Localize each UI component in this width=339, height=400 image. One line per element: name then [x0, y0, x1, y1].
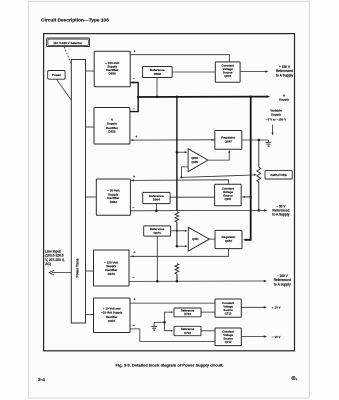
svg-text:Reference: Reference — [181, 309, 195, 313]
svg-text:Q637: Q637 — [224, 74, 231, 78]
wire Q657 bottom to rect4 plus line — [130, 249, 228, 257]
svg-text:−7 V to −150 V: −7 V to −150 V — [266, 118, 286, 122]
dashed mechanical link from selector to transformer — [64, 47, 72, 66]
constant voltage source Q667 — [215, 184, 242, 206]
svg-text:3-4: 3-4 — [38, 377, 45, 383]
wire op-amp Q654 output — [209, 238, 215, 240]
label - terminal D650 — [133, 77, 135, 81]
regulator Q657 — [215, 230, 242, 248]
wire transformer to D632 — [86, 126, 95, 128]
rectifier D670 +10-Volt -10-Volt Supply — [94, 298, 131, 333]
node D674 drop junction — [156, 280, 159, 283]
rectifier D632 A Supply — [94, 108, 130, 145]
wire divider chain upper (thick) — [176, 97, 178, 211]
constant voltage source Q713 — [215, 299, 241, 317]
svg-text:−: − — [133, 107, 135, 111]
rectifier D662 -50-Volt Supply — [96, 179, 130, 215]
svg-text:−: − — [133, 77, 135, 81]
reference D664 — [143, 192, 170, 203]
wire +150V output with arrow — [240, 70, 268, 72]
label + terminal D632 — [135, 135, 137, 139]
label - terminal D662 — [132, 205, 134, 209]
node D664 drop at minus line — [155, 209, 158, 212]
wire divider to op-amp lower input — [177, 245, 188, 247]
transformer T601 Power Trans — [71, 60, 85, 324]
label - terminal D672 — [132, 276, 134, 280]
potentiometer R660 amplitude — [257, 140, 261, 210]
wire common node up to D713 — [165, 311, 174, 322]
wire common node down to D716 — [165, 322, 174, 331]
wire D658 to Q637 — [172, 71, 215, 73]
wire op-amp output to Q647 bottom — [208, 150, 230, 160]
svg-text:+: + — [133, 250, 135, 254]
diagram border frame — [44, 34, 295, 351]
svg-text:115 V-230 V Selector: 115 V-230 V Selector — [53, 41, 83, 45]
wire transformer to D672 — [86, 270, 94, 272]
resistor divider R upper — [175, 212, 179, 222]
svg-text:D713: D713 — [184, 312, 191, 316]
svg-text:+ 10 V: + 10 V — [272, 306, 281, 310]
svg-text:D716: D716 — [184, 331, 191, 335]
svg-text:Supply: Supply — [279, 98, 290, 102]
rectifier D672 -100-Volt Supply — [94, 250, 130, 286]
svg-text:D672: D672 — [108, 272, 116, 276]
svg-text:Referenced: Referenced — [276, 69, 293, 73]
wire op-amp lower input from wiper line — [181, 167, 188, 178]
svg-text:−: − — [132, 276, 134, 280]
svg-text:D664: D664 — [153, 198, 161, 202]
svg-text:to A supply: to A supply — [274, 282, 291, 286]
op-amp Q633 Q636 comparator — [188, 149, 208, 172]
wire D664 to Q667 — [170, 196, 215, 198]
svg-text:Power: Power — [52, 73, 62, 77]
node D674 line crossing divider — [176, 230, 178, 232]
wire -50V output arrow — [259, 209, 267, 211]
svg-text:®₁: ®₁ — [292, 375, 298, 382]
wire D662 plus to Q667 top — [131, 179, 229, 184]
wire D672 minus to -100V output — [129, 280, 267, 282]
svg-text:+: + — [135, 135, 137, 139]
svg-text:Fig. 3-3. Detailed block diagr: Fig. 3-3. Detailed block diagram of Powe… — [116, 363, 224, 368]
label -10V — [272, 335, 281, 339]
svg-text:Q717: Q717 — [225, 340, 232, 344]
wire D650 plus output to Q637 top — [130, 55, 229, 62]
wire D670 plus to Q713 — [130, 302, 215, 304]
svg-text:D662: D662 — [110, 200, 118, 204]
svg-text:+: + — [133, 175, 135, 179]
svg-text:Q633: Q633 — [191, 156, 198, 160]
svg-text:−: − — [132, 205, 134, 209]
svg-text:D674: D674 — [154, 231, 162, 235]
svg-text:to A Supply: to A Supply — [272, 213, 289, 217]
svg-text:Source: Source — [223, 337, 233, 341]
wire D632 plus to regulator Q647 — [131, 139, 215, 142]
regulator Q647 — [215, 131, 242, 150]
page number 3-4 — [38, 377, 45, 383]
node lower input to wiper line — [180, 176, 182, 178]
wire bus1 to op-amp upper input — [177, 151, 188, 153]
svg-text:Supply: Supply — [271, 112, 281, 116]
svg-text:Constant: Constant — [222, 330, 234, 334]
label + terminal D662 — [133, 175, 135, 179]
svg-text:Reference: Reference — [181, 327, 195, 331]
svg-text:Constant: Constant — [222, 301, 234, 305]
node op-amp Q654 tap — [176, 245, 179, 248]
wire bus2 to Q667 arrow — [242, 196, 251, 198]
svg-text:Q636: Q636 — [191, 160, 198, 164]
svg-text:Q647: Q647 — [225, 140, 233, 144]
figure caption — [116, 363, 224, 368]
wire D664 ground drop — [155, 204, 157, 211]
label - terminal D632 — [133, 107, 135, 111]
node bus2 tap at bus — [249, 95, 252, 98]
wire -10V output — [241, 335, 267, 337]
node reference common — [163, 321, 166, 324]
arrowhead D672 plus — [131, 255, 134, 257]
label -100V Referenced to A supply — [274, 274, 291, 286]
resistor divider R lower — [175, 264, 179, 274]
wire from Power switch to transformer — [57, 79, 72, 101]
svg-text:Voltage: Voltage — [223, 333, 233, 337]
control AMPLITUDE — [265, 170, 292, 179]
wire transformer to D662 — [86, 196, 97, 198]
svg-text:AMPLITUDE: AMPLITUDE — [270, 173, 287, 177]
svg-text:− 10 V: − 10 V — [272, 335, 281, 339]
wire divider chain middle — [176, 222, 178, 246]
svg-text:D658: D658 — [154, 72, 162, 76]
rectifier D650 +150-Volt Supply — [94, 51, 130, 86]
ground at reference common — [151, 322, 164, 331]
svg-text:+: + — [133, 298, 135, 302]
label + terminal D670 — [133, 298, 135, 302]
registered trademark mark — [292, 375, 298, 382]
svg-text:Q667: Q667 — [224, 197, 231, 201]
svg-text:Q657: Q657 — [225, 239, 233, 243]
switch S601 115V-230V Selector — [47, 38, 90, 47]
svg-text:AC): AC) — [45, 262, 51, 266]
svg-text:Source: Source — [223, 308, 233, 312]
node divider chain at -100 line — [176, 280, 179, 283]
node Q667 tap on bus2 — [249, 196, 252, 199]
reference D658 — [143, 67, 173, 78]
constant voltage source Q637 — [215, 62, 240, 82]
svg-text:+ 150 V: + 150 V — [279, 65, 291, 69]
ground at Q647 output — [266, 140, 272, 147]
wire D674 drop to -100 bus — [156, 236, 158, 281]
label - terminal D670 — [133, 324, 135, 328]
label +150V Referenced to A Supply — [276, 65, 293, 78]
switch Power — [48, 71, 65, 80]
arrow variable supply pointer — [272, 125, 274, 136]
label Variable Supply -7V to -150V — [266, 109, 286, 122]
node amplitude divider top — [258, 139, 261, 142]
wire D716 to Q717 — [201, 330, 215, 332]
wire transformer to D650 — [86, 70, 95, 72]
node D658 ground at bus — [156, 96, 159, 99]
svg-text:+: + — [134, 50, 136, 54]
svg-text:Circuit Description—Type 106: Circuit Description—Type 106 — [41, 18, 109, 24]
label A Supply — [279, 93, 290, 101]
svg-text:D650: D650 — [109, 71, 117, 75]
node divider chain at bus — [176, 96, 179, 99]
wire bus down to D632 minus (thick) — [130, 97, 138, 112]
wire Q647 output to ground node — [242, 139, 269, 141]
label -50V Referenced to A Supply — [272, 204, 289, 216]
node op-amp tap on divider — [176, 151, 179, 154]
label + terminal D650 — [134, 50, 136, 54]
wire transformer to D670 — [86, 314, 94, 316]
svg-text:D670: D670 — [108, 319, 115, 323]
wire divider chain to -100 bus — [176, 274, 178, 281]
wire A supply bus (thick) — [138, 95, 270, 98]
label + terminal D672 — [133, 250, 135, 254]
node -50V output junction — [258, 209, 261, 212]
wire D670 minus to Q717 — [130, 329, 215, 342]
reference D716 — [174, 326, 201, 335]
wire D713 to Q713 — [201, 311, 215, 313]
wire D662 minus line to -50V node — [130, 209, 258, 211]
reference D674 — [144, 226, 171, 236]
node junction D650/D632 minus at bus — [137, 96, 140, 99]
wire line input with arrowhead — [49, 270, 72, 275]
label +10V — [272, 306, 281, 310]
svg-text:Power Trans: Power Trans — [76, 258, 80, 277]
svg-text:Q713: Q713 — [225, 311, 232, 315]
svg-text:to A Supply: to A Supply — [276, 74, 293, 78]
op-amp Q654 comparator — [188, 227, 209, 251]
svg-text:Voltage: Voltage — [223, 304, 233, 308]
svg-text:D632: D632 — [108, 130, 116, 134]
page header: Circuit Description - Type 106 — [41, 18, 109, 24]
reference D713 — [174, 308, 201, 317]
label Line Input voltage — [45, 249, 65, 266]
wire D650 minus to A bus junction — [131, 81, 138, 97]
wire +10V output — [241, 306, 267, 308]
wire D658 ground drop to A bus — [156, 78, 158, 97]
svg-text:−: − — [133, 324, 135, 328]
wire feedback bus2 (thick) — [243, 97, 251, 241]
wire wiper line to amplitude pot — [181, 174, 256, 178]
constant voltage source Q717 — [215, 328, 241, 346]
svg-text:Q654: Q654 — [192, 237, 199, 241]
wire D674 to op-amp Q654 — [171, 230, 188, 232]
